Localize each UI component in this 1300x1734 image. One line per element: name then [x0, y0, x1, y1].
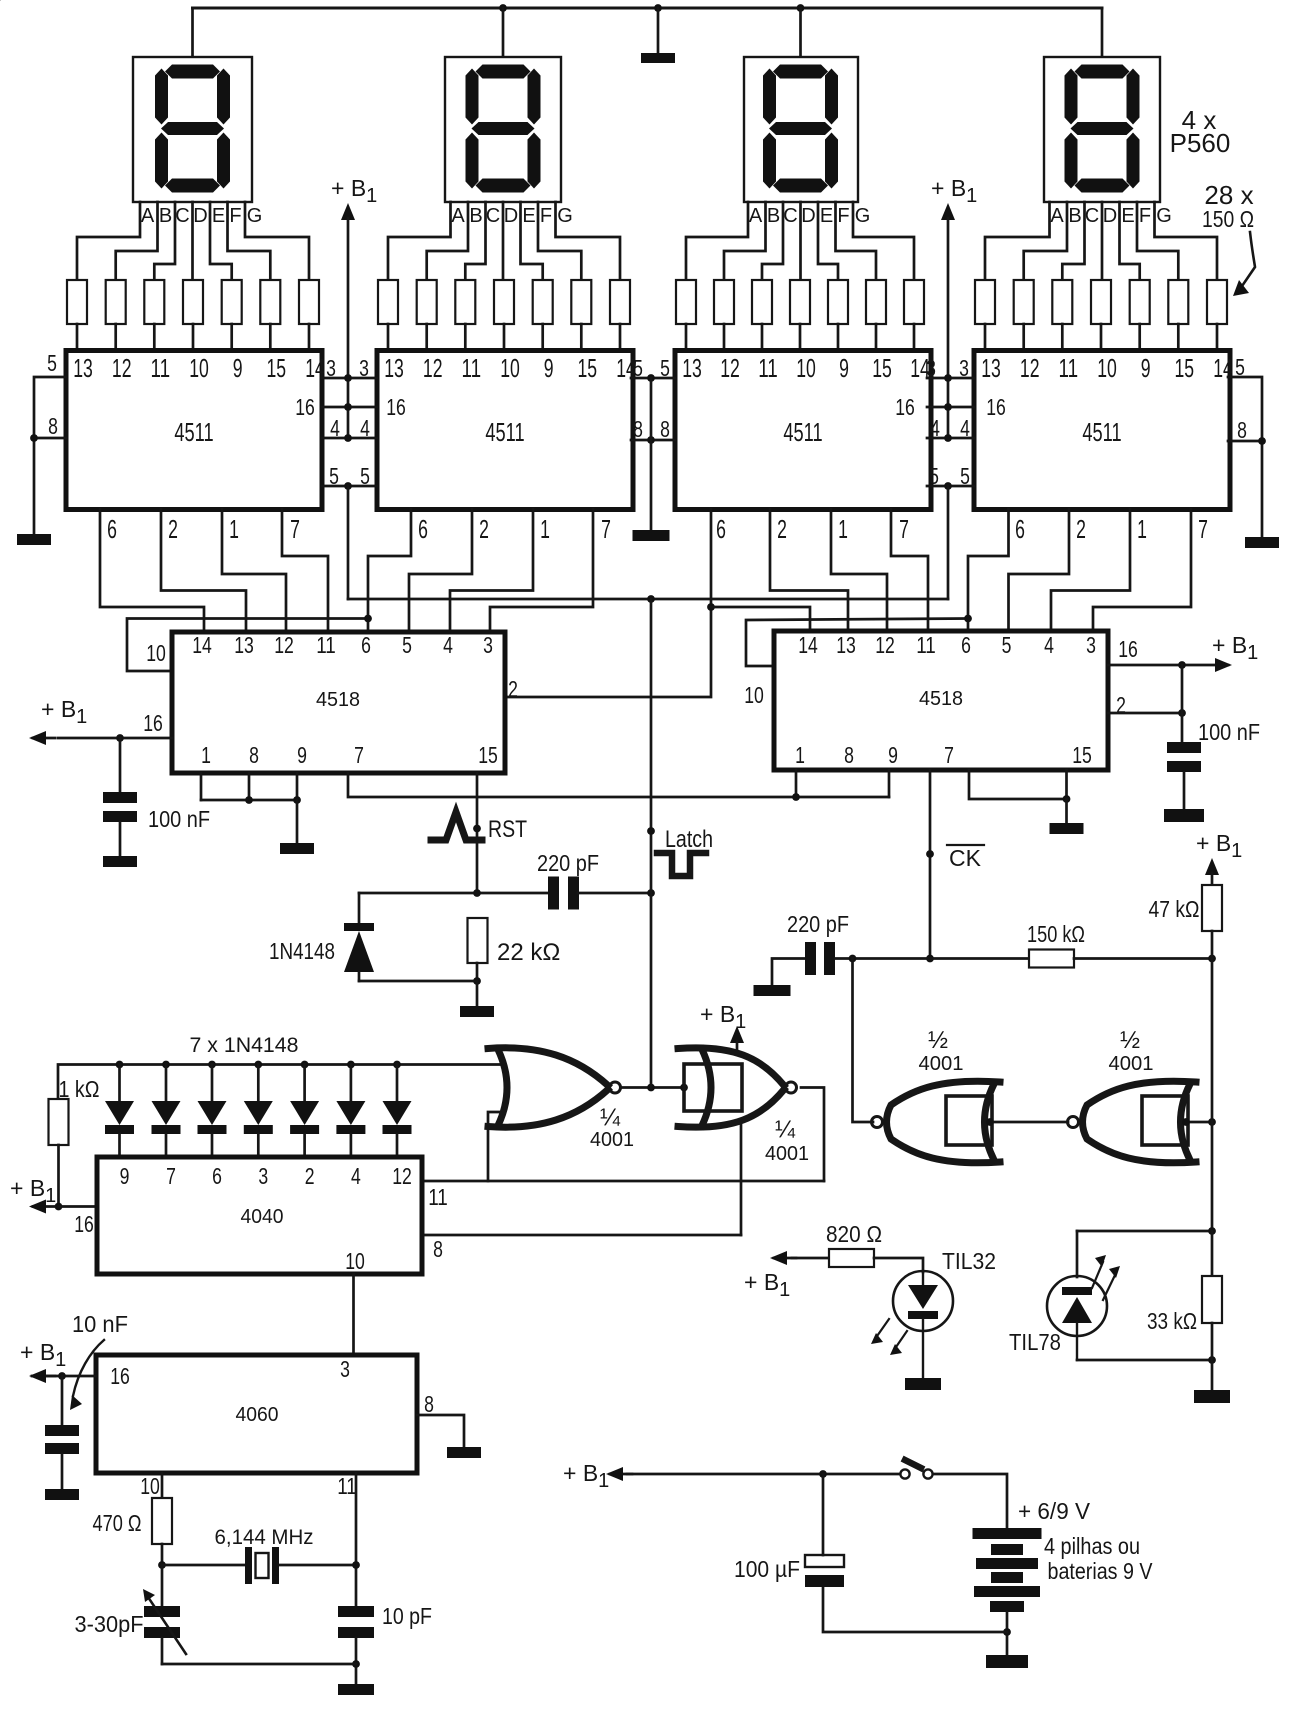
- wire: [118, 1065, 121, 1102]
- svg-text:9: 9: [233, 353, 243, 383]
- ground: [1194, 1390, 1230, 1403]
- wire: [818, 202, 838, 280]
- svg-text:1N4148: 1N4148: [269, 938, 335, 964]
- wire: [59, 1205, 98, 1208]
- svg-text:13: 13: [234, 632, 254, 658]
- wire: [740, 1124, 743, 1235]
- svg-text:TIL78: TIL78: [1009, 1329, 1061, 1355]
- junction node: [344, 434, 352, 442]
- svg-text:11: 11: [428, 1184, 448, 1210]
- ground: [45, 1489, 79, 1500]
- resistor: [260, 280, 280, 324]
- svg-text:baterias 9 V: baterias 9 V: [1048, 1558, 1154, 1584]
- wire: [1211, 1323, 1214, 1360]
- svg-text:15: 15: [1175, 353, 1195, 383]
- node 10nF tap: [58, 1372, 66, 1380]
- wire: [464, 324, 467, 351]
- svg-text:12: 12: [875, 632, 895, 658]
- svg-text:5: 5: [960, 463, 970, 489]
- node Latch tap: [647, 827, 655, 835]
- svg-text:C: C: [1085, 205, 1099, 227]
- wire: [118, 1134, 121, 1157]
- svg-text:3: 3: [340, 1356, 350, 1382]
- wire: [58, 1065, 397, 1100]
- NOR gate U8a 1/2 4001: [946, 1096, 992, 1145]
- power +B1 arrow: [1205, 858, 1219, 875]
- wire: [1181, 665, 1184, 742]
- wire: [32, 1375, 96, 1378]
- svg-text:4518: 4518: [316, 689, 360, 711]
- wire: [322, 377, 377, 380]
- svg-text:B: B: [159, 205, 172, 227]
- wire: [153, 324, 156, 351]
- node U6 pin1 junction: [792, 793, 800, 801]
- IC 4518 U5 (minutes counter): [172, 632, 505, 773]
- junction node: [245, 796, 253, 804]
- svg-text:9: 9: [297, 742, 307, 768]
- svg-text:A: A: [749, 205, 763, 227]
- svg-text:10: 10: [146, 640, 166, 666]
- capacitor: [103, 792, 137, 803]
- junction node: [208, 1061, 216, 1069]
- node 4518 U5 pin6/pin10 junction: [364, 615, 372, 623]
- wire: [799, 324, 802, 351]
- node U8b output: [1182, 1118, 1190, 1126]
- svg-text:A: A: [1050, 205, 1064, 227]
- svg-text:RST: RST: [488, 816, 527, 843]
- resistor: [222, 280, 242, 324]
- wire: [578, 892, 651, 895]
- node bottom loop: [352, 1660, 360, 1668]
- wire: [303, 1065, 306, 1102]
- pointer to 10 nF cap: [73, 1340, 104, 1396]
- svg-text:5: 5: [633, 355, 643, 381]
- svg-text:E: E: [1121, 205, 1134, 227]
- wire: [1108, 664, 1228, 667]
- junction node: [344, 403, 352, 411]
- svg-text:13: 13: [981, 353, 1001, 383]
- wire: [161, 1565, 164, 1606]
- svg-text:150 Ω: 150 Ω: [1202, 206, 1254, 232]
- wire: [503, 324, 506, 351]
- wire: [34, 437, 66, 440]
- svg-text:9: 9: [544, 353, 554, 383]
- svg-text:220 pF: 220 pF: [537, 850, 599, 876]
- resistor: [1202, 885, 1222, 931]
- node U8a output: [986, 1118, 994, 1126]
- svg-text:9: 9: [120, 1163, 130, 1189]
- svg-text:14: 14: [1213, 353, 1233, 383]
- wire: [874, 1258, 923, 1272]
- IC 4511 U1 (digit 1 decoder): [66, 351, 322, 510]
- wire: [161, 1544, 164, 1565]
- wire: [162, 1564, 246, 1567]
- resistor: [1202, 1276, 1222, 1323]
- wire: [556, 202, 621, 280]
- wire: [913, 324, 916, 351]
- svg-text:16: 16: [386, 394, 406, 420]
- resistor: [1091, 280, 1111, 324]
- svg-text:4: 4: [360, 415, 370, 441]
- svg-text:7: 7: [601, 514, 611, 544]
- resistor: [714, 280, 734, 324]
- wire: [1211, 873, 1214, 885]
- wire: [1101, 8, 1104, 57]
- svg-text:8: 8: [424, 1391, 434, 1417]
- node U4 pin8 junction: [1258, 437, 1266, 445]
- svg-text:33 kΩ: 33 kΩ: [1147, 1308, 1197, 1334]
- RST pulse symbol: [431, 812, 482, 840]
- svg-text:10 pF: 10 pF: [382, 1603, 432, 1629]
- wire: [352, 1274, 355, 1355]
- wire: [396, 1065, 399, 1102]
- wire: [347, 486, 350, 599]
- node U1 pin8 junction: [30, 434, 38, 442]
- svg-text:3: 3: [926, 355, 936, 381]
- wire: [538, 202, 581, 280]
- svg-text:12: 12: [112, 353, 132, 383]
- resistor: [904, 280, 924, 324]
- svg-text:5: 5: [47, 350, 57, 376]
- node 4040 pin16: [55, 1203, 63, 1211]
- wire: [230, 324, 233, 351]
- wire: [823, 1587, 1007, 1632]
- ground: [986, 1655, 1028, 1668]
- svg-text:TIL32: TIL32: [942, 1248, 996, 1274]
- node TIL78 bottom / 33k: [1208, 1356, 1216, 1364]
- svg-text:1: 1: [201, 742, 211, 768]
- wire: [476, 981, 479, 1006]
- wire: [465, 202, 485, 280]
- wire: [191, 8, 194, 57]
- ground: [280, 843, 314, 854]
- svg-text:E: E: [212, 205, 225, 227]
- wire: [257, 1065, 260, 1102]
- wire: [161, 509, 246, 632]
- IC 4060 U10 oscillator/divider: [96, 1355, 417, 1473]
- svg-text:4: 4: [443, 632, 453, 658]
- wire: [417, 1415, 464, 1447]
- capacitor: [144, 1606, 180, 1617]
- svg-text:B: B: [469, 205, 482, 227]
- NOR gate U7b body: [678, 1048, 784, 1086]
- wire: [359, 892, 548, 895]
- wire: [211, 1065, 214, 1102]
- wire: [761, 324, 764, 351]
- wire: [1093, 509, 1191, 631]
- svg-text:8: 8: [249, 742, 259, 768]
- wire: [799, 202, 802, 280]
- svg-text:7: 7: [1198, 514, 1208, 544]
- NOR gate U8b 1/2 4001: [1142, 1096, 1188, 1145]
- wire: [1074, 957, 1212, 960]
- junction node: [162, 1061, 170, 1069]
- svg-text:100 nF: 100 nF: [148, 806, 210, 832]
- wire: [1211, 931, 1214, 959]
- svg-text:6: 6: [961, 632, 971, 658]
- resistor: [67, 280, 87, 324]
- wire: [422, 1180, 824, 1183]
- wire: [686, 202, 748, 280]
- svg-text:D: D: [1103, 205, 1117, 227]
- svg-text:4: 4: [960, 415, 970, 441]
- wire: [248, 773, 251, 800]
- ground: [17, 534, 51, 545]
- wire: [348, 773, 889, 797]
- power +B1 arrow: [941, 203, 955, 220]
- wire: [201, 799, 297, 802]
- wire: [1211, 1231, 1214, 1276]
- svg-text:C: C: [486, 205, 500, 227]
- wire: [119, 822, 122, 856]
- wire: [1062, 202, 1084, 280]
- svg-text:A: A: [141, 205, 155, 227]
- IC 4511 U2 (digit 2 decoder): [377, 351, 633, 510]
- svg-text:9: 9: [888, 742, 898, 768]
- wire: [1177, 324, 1180, 351]
- node crystal left: [158, 1561, 166, 1569]
- svg-text:5: 5: [360, 463, 370, 489]
- svg-text:4040: 4040: [241, 1206, 284, 1228]
- wire: [222, 509, 286, 632]
- IC 4511 U3 (digit 3 decoder): [675, 351, 931, 510]
- wire: [627, 1473, 900, 1476]
- wire: [762, 202, 783, 280]
- svg-text:13: 13: [836, 632, 856, 658]
- wire: [853, 959, 874, 1123]
- resistor: [106, 280, 126, 324]
- wire: [799, 8, 802, 57]
- node latch-enable row: [944, 482, 952, 490]
- wire: [947, 844, 984, 846]
- svg-text:4001: 4001: [590, 1129, 634, 1151]
- svg-text:5: 5: [1235, 354, 1245, 380]
- svg-text:G: G: [557, 205, 573, 227]
- node 4518 U6 pin6/pin10 junction: [964, 615, 972, 623]
- junction node: [1063, 795, 1071, 803]
- wire mid ground drop: [650, 378, 653, 530]
- resistor: [144, 280, 164, 324]
- svg-text:F: F: [229, 205, 241, 227]
- svg-text:½: ½: [928, 1027, 948, 1054]
- svg-text:2: 2: [508, 676, 518, 702]
- svg-text:22 kΩ: 22 kΩ: [497, 939, 560, 966]
- wire: [650, 599, 653, 1088]
- node latch line / C2: [647, 889, 655, 897]
- wire: [631, 377, 675, 380]
- svg-text:3: 3: [483, 632, 493, 658]
- svg-text:16: 16: [110, 1363, 130, 1389]
- svg-text:14: 14: [192, 632, 212, 658]
- resistor: [183, 280, 203, 324]
- wire: [127, 619, 368, 672]
- svg-text:2: 2: [168, 514, 178, 544]
- junction node: [1178, 709, 1186, 717]
- wire: [1006, 1612, 1009, 1655]
- wire: [521, 202, 543, 280]
- svg-text:9: 9: [1141, 353, 1151, 383]
- svg-text:11: 11: [316, 632, 336, 658]
- wire: [929, 770, 932, 959]
- svg-text:6: 6: [361, 632, 371, 658]
- svg-text:10: 10: [744, 682, 764, 708]
- svg-text:½: ½: [1120, 1027, 1140, 1054]
- svg-text:4: 4: [930, 415, 940, 441]
- wire: [162, 1663, 356, 1666]
- resistor: [533, 280, 553, 324]
- wire: [57, 1145, 60, 1207]
- svg-text:8: 8: [433, 1236, 443, 1262]
- wire: [770, 509, 848, 631]
- node 4511 U3 pin6 branch: [707, 603, 715, 611]
- wire: [1051, 509, 1130, 631]
- svg-text:10: 10: [1097, 353, 1117, 383]
- wire: [358, 972, 361, 981]
- svg-text:15: 15: [478, 742, 498, 768]
- wire: [1183, 772, 1186, 809]
- wire: [992, 1121, 1068, 1124]
- svg-text:3-30pF: 3-30pF: [75, 1611, 144, 1637]
- junction node: [347, 1061, 355, 1069]
- svg-text:10: 10: [500, 353, 520, 383]
- wire: [985, 202, 1050, 280]
- svg-text:1: 1: [229, 514, 239, 544]
- svg-text:4: 4: [1044, 632, 1054, 658]
- resistor: [829, 1249, 874, 1267]
- svg-text:G: G: [1156, 205, 1172, 227]
- svg-text:11: 11: [462, 353, 482, 383]
- wire: [228, 202, 271, 280]
- wire: [322, 437, 377, 440]
- svg-text:5: 5: [1002, 632, 1012, 658]
- resistor: [610, 280, 630, 324]
- junction node: [254, 1061, 262, 1069]
- wire: [1009, 509, 1070, 631]
- wire: [200, 773, 203, 800]
- wire: [119, 738, 122, 792]
- resistor: [494, 280, 514, 324]
- svg-text:10: 10: [140, 1473, 160, 1499]
- junction node: [393, 1061, 401, 1069]
- capacitor: [338, 1606, 374, 1617]
- ground: [338, 1684, 374, 1695]
- svg-text:5: 5: [329, 463, 339, 489]
- svg-text:100 µF: 100 µF: [734, 1556, 800, 1582]
- svg-text:16: 16: [895, 394, 915, 420]
- svg-text:D: D: [801, 205, 815, 227]
- wire: [947, 486, 950, 599]
- node 100uF tap: [819, 1470, 827, 1478]
- resistor: [1029, 950, 1074, 968]
- wire: [358, 893, 361, 923]
- wire: [450, 509, 533, 632]
- wire: [772, 959, 805, 986]
- NOR gate U7a body: [488, 1048, 608, 1086]
- wire: [1228, 377, 1262, 537]
- node output column: [1208, 1118, 1216, 1126]
- wire: [61, 1454, 64, 1489]
- resistor: [571, 280, 591, 324]
- svg-text:15: 15: [578, 353, 598, 383]
- wire: [795, 770, 798, 797]
- wire: [1138, 324, 1141, 351]
- svg-text:7: 7: [166, 1163, 176, 1189]
- svg-text:11: 11: [151, 353, 171, 383]
- wire: [1211, 1360, 1214, 1390]
- svg-text:4001: 4001: [765, 1143, 809, 1165]
- svg-text:150 kΩ: 150 kΩ: [1027, 921, 1085, 947]
- junction node: [944, 434, 952, 442]
- wire: [621, 1086, 684, 1089]
- wire: [685, 324, 688, 351]
- svg-text:D: D: [193, 205, 207, 227]
- wire: [1061, 324, 1064, 351]
- wire: [1211, 959, 1214, 1230]
- svg-text:12: 12: [720, 353, 740, 383]
- capacitor: [548, 877, 559, 910]
- wire: [427, 202, 468, 280]
- svg-text:15: 15: [267, 353, 287, 383]
- svg-text:10: 10: [345, 1248, 365, 1274]
- resistor: [378, 280, 398, 324]
- svg-text:4511: 4511: [1082, 417, 1121, 447]
- svg-text:¼: ¼: [600, 1104, 621, 1131]
- svg-text:E: E: [522, 205, 535, 227]
- svg-text:820 Ω: 820 Ω: [826, 1221, 882, 1247]
- wire: [359, 980, 477, 983]
- node crystal right: [352, 1561, 360, 1569]
- svg-text:B: B: [1068, 205, 1081, 227]
- wire: [210, 202, 232, 280]
- wire: [801, 1088, 824, 1182]
- svg-text:12: 12: [274, 632, 294, 658]
- svg-text:4060: 4060: [236, 1404, 279, 1426]
- svg-text:P560: P560: [1170, 128, 1231, 158]
- node C3 tap: [1178, 661, 1186, 669]
- NOR gate U8a body: [887, 1081, 1001, 1163]
- wire: [711, 607, 810, 631]
- wire: [282, 509, 328, 632]
- svg-text:7: 7: [899, 514, 909, 544]
- svg-text:3: 3: [359, 355, 369, 381]
- wire ground stub: [657, 8, 660, 53]
- wire: [368, 509, 411, 632]
- svg-text:3: 3: [959, 355, 969, 381]
- svg-text:1: 1: [1137, 514, 1147, 544]
- wire: [1076, 1231, 1079, 1277]
- wire: [502, 202, 505, 280]
- wire: [100, 509, 204, 632]
- wire: [165, 1065, 168, 1102]
- wire: [303, 1134, 306, 1157]
- svg-text:3: 3: [1086, 632, 1096, 658]
- power +B1 arrow: [341, 203, 355, 220]
- junction node: [293, 796, 301, 804]
- wire: [933, 1474, 1007, 1528]
- wire: [1108, 712, 1182, 715]
- ground: [103, 856, 137, 867]
- wire: [347, 218, 350, 438]
- node 8-8 row chips 2-3: [647, 436, 655, 444]
- ground: [754, 985, 791, 996]
- wire: [792, 1257, 829, 1260]
- resistor: [1052, 280, 1072, 324]
- svg-text:2: 2: [1076, 514, 1086, 544]
- svg-text:11: 11: [758, 353, 778, 383]
- wire: [355, 1473, 358, 1606]
- svg-text:11: 11: [1059, 353, 1079, 383]
- svg-text:12: 12: [392, 1163, 412, 1189]
